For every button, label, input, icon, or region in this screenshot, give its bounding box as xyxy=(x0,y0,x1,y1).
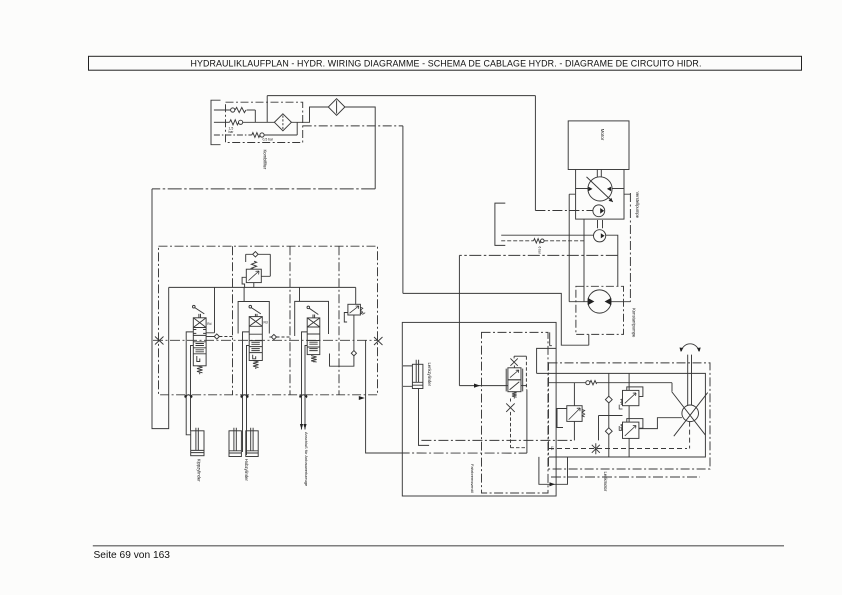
wire pump A line xyxy=(568,194,570,302)
svg-text:Anschluß für Anbauwerkzeuge: Anschluß für Anbauwerkzeuge xyxy=(304,432,309,487)
svg-text:0,5 bar: 0,5 bar xyxy=(263,138,274,142)
wire suction P3 xyxy=(501,234,593,236)
wire motor right chain xyxy=(629,193,631,302)
steering feed check valve xyxy=(549,381,673,392)
svg-text:Seite 69 von 163: Seite 69 von 163 xyxy=(94,550,171,561)
wire tank return long xyxy=(152,188,375,190)
check valve S2 out xyxy=(269,334,290,339)
svg-text:Konstantpumpe: Konstantpumpe xyxy=(632,308,637,338)
wire cooler out xyxy=(291,107,328,122)
pilot valve value label xyxy=(538,247,542,255)
wire S1 feed xyxy=(206,287,214,332)
bypass check valve V2 xyxy=(214,120,275,125)
return filter (diamond) xyxy=(328,99,345,116)
wire P3 outlet loop xyxy=(606,235,618,255)
steering lower chain xyxy=(551,476,700,478)
svg-text:Kombifilter: Kombifilter xyxy=(263,150,268,170)
wire S1 work lines xyxy=(186,332,193,428)
label Verstellpumpe xyxy=(635,192,640,219)
label Lenkmotor xyxy=(603,472,608,492)
wire drain chain xyxy=(366,452,527,454)
relief valve R2 xyxy=(330,287,366,366)
drive shaft xyxy=(597,170,601,178)
svg-text:Hubzylinder: Hubzylinder xyxy=(244,459,249,482)
flow arrow supply xyxy=(474,384,480,388)
relief valve R1 over S2 xyxy=(242,252,270,288)
label Konstantpumpe xyxy=(632,308,637,338)
spool valve S3 xyxy=(307,306,320,362)
brake unit step edge xyxy=(537,348,557,373)
port stub P xyxy=(550,332,552,345)
svg-text:HYDRAULIKLAUFPLAN - HYDR. WIRI: HYDRAULIKLAUFPLAN - HYDR. WIRING DIAGRAM… xyxy=(190,59,701,69)
wire feed to steering supply xyxy=(403,293,589,345)
label Kombifilter xyxy=(263,150,268,170)
S2 sub-plate box xyxy=(238,302,269,334)
plugged port right xyxy=(374,337,383,345)
pump chain stubs xyxy=(569,193,630,195)
steering motor M2 xyxy=(672,392,708,437)
brake valve unit outer box xyxy=(402,322,556,496)
pump unit box xyxy=(576,189,624,220)
steering relief valve xyxy=(557,383,585,441)
filter unit enclosure box xyxy=(226,102,303,142)
label L1 xyxy=(550,447,554,451)
filter unit enclosure bracket xyxy=(211,100,221,145)
svg-text:6 bar: 6 bar xyxy=(538,247,542,255)
tank rail xyxy=(153,339,378,341)
tilt cylinder xyxy=(186,428,204,456)
counterbalance valve CB2 xyxy=(619,406,643,457)
steering cylinder xyxy=(403,360,429,446)
rotation arrow xyxy=(680,344,701,352)
variable pump P1 xyxy=(587,177,613,202)
svg-text:Rd: Rd xyxy=(207,322,211,326)
control valve block enclosure xyxy=(159,246,378,395)
spool valve S1 xyxy=(193,305,207,374)
lift cylinder A xyxy=(229,428,241,457)
section separator 1 xyxy=(232,246,234,395)
spool valve S2 xyxy=(249,305,262,369)
svg-text:Kippzylinder: Kippzylinder xyxy=(197,459,202,482)
svg-text:Motor: Motor xyxy=(600,129,605,141)
hose break mark lift lines xyxy=(240,395,248,399)
wire tank loop xyxy=(152,189,169,429)
plugged port left xyxy=(155,337,164,345)
lift cylinder B xyxy=(246,428,258,457)
wire CB to motor xyxy=(639,418,682,429)
steering inner frame xyxy=(537,373,706,457)
wire attachment stub xyxy=(366,340,403,453)
check valve S1 out xyxy=(206,334,232,339)
section separator 3 xyxy=(338,246,340,395)
wire lift feed xyxy=(243,428,247,456)
travel motor M1 xyxy=(588,290,611,313)
cooler (diamond, dashed) xyxy=(274,114,291,131)
steering step outlet xyxy=(539,457,568,484)
steering shaft xyxy=(688,355,692,406)
hose break mark tilt lines xyxy=(184,395,192,399)
wire S3 work lines xyxy=(302,332,308,430)
wire tank link chain xyxy=(421,439,574,441)
brake valve cartridge xyxy=(506,356,527,453)
plugged drain port xyxy=(592,443,600,454)
wire top charge line xyxy=(267,96,535,211)
bypass check valve V3 xyxy=(214,122,297,137)
svg-text:bar: bar xyxy=(229,130,235,134)
title block xyxy=(89,56,802,70)
valve S2 label xyxy=(264,321,268,325)
diesel motor box xyxy=(568,121,629,170)
charge pump P2 xyxy=(593,205,605,217)
wire S3 feed xyxy=(299,287,301,301)
steering mid column xyxy=(605,373,612,457)
footer rule xyxy=(93,545,784,547)
bell housing links xyxy=(576,170,624,189)
label Fahrbremsventil xyxy=(470,464,475,493)
tank bracket xyxy=(495,203,505,245)
bypass check valve V1 xyxy=(214,107,255,122)
travel motor box xyxy=(576,286,624,334)
drain line dashed xyxy=(549,422,690,449)
svg-text:Rd: Rd xyxy=(264,321,268,325)
work line arrows xyxy=(300,424,307,430)
wire CB link xyxy=(599,416,623,441)
label Hubzylinder xyxy=(244,459,249,482)
hose break mark attachment lines xyxy=(299,395,307,399)
wire filter drain chain xyxy=(303,125,403,127)
stub arrow xyxy=(359,396,365,400)
svg-text:Fahrbremsventil: Fahrbremsventil xyxy=(470,464,475,493)
wire filter to tank drop xyxy=(345,107,375,189)
label Lenkzylinder xyxy=(427,363,432,387)
section separator 2 xyxy=(289,246,291,395)
brake unit inner enclosure xyxy=(482,332,549,493)
S3 sub-plate box xyxy=(295,301,329,336)
counterbalance valve CB1 xyxy=(619,373,643,409)
svg-text:Lenkzylinder: Lenkzylinder xyxy=(427,363,432,387)
wire S2 feed xyxy=(243,287,245,301)
pilot check valve xyxy=(501,239,584,243)
wire long vertical feed xyxy=(402,126,404,294)
wire pump B line xyxy=(583,219,585,302)
valve V1/V2 value label xyxy=(229,126,235,134)
wire motor ports xyxy=(569,301,630,303)
label Kippzylinder xyxy=(197,459,202,482)
wire S2 work lines xyxy=(243,332,250,428)
supply rail xyxy=(169,286,356,288)
label attachment port xyxy=(304,432,309,487)
steering circuit enclosure xyxy=(549,363,711,469)
svg-text:Lenkmotor: Lenkmotor xyxy=(603,472,608,492)
svg-text:Verstellpumpe: Verstellpumpe xyxy=(635,192,640,219)
shaft coupling xyxy=(598,220,603,228)
step arrow xyxy=(550,482,556,486)
label Motor xyxy=(600,129,605,141)
gear pump P3 xyxy=(594,230,606,242)
valve S1 label xyxy=(207,322,211,326)
valve V3 value label xyxy=(263,138,274,142)
wire supply chain to brake valve xyxy=(459,254,617,256)
wire P3 to motor box xyxy=(617,255,619,286)
